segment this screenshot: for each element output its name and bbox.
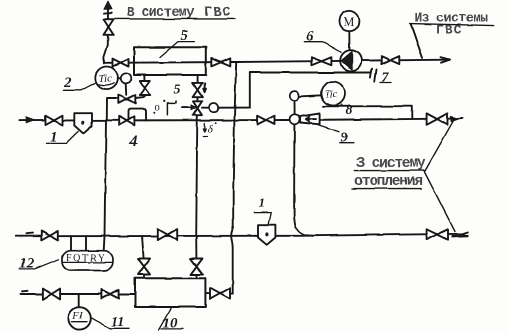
wire bottom cold-water line y=294 (21, 293, 136, 295)
leader label 10 (159, 308, 172, 330)
dirt dot strainer S2 (265, 232, 268, 236)
heat exchanger U10 (135, 278, 205, 307)
valve V7 heater5 right stub (193, 83, 203, 97)
wire delta drain vertical (196, 116, 197, 259)
3-way control valve V8 (193, 101, 202, 115)
arrow flow right at main line inlet (26, 117, 35, 123)
svg-text:δ: δ (208, 124, 214, 136)
wire GVS riser (104, 8, 108, 63)
valve V15 return line right (426, 229, 447, 239)
underline label 7 (381, 82, 392, 84)
valve V1 main inlet (46, 116, 63, 125)
node circle A on elevator branch (290, 91, 299, 100)
FI underline (72, 321, 88, 323)
underline label 11 (110, 327, 129, 329)
wire impulse line into 3-way valve (182, 107, 192, 109)
underline swoosh controller 2 (99, 83, 115, 85)
stem pump to motor (348, 31, 350, 50)
svg-text:Tic: Tic (99, 73, 113, 85)
underline heating line 2 (352, 188, 421, 190)
wire node to Tic8 (299, 95, 321, 96)
wire heater10 outlet elbow (206, 293, 233, 295)
wire return tee down to valve18 (142, 236, 144, 258)
underline to GVS system (115, 18, 235, 20)
leader label 1 return (254, 213, 271, 225)
underline heating line 1 (354, 170, 425, 172)
valve V14 return line middle (158, 229, 177, 240)
valve V18 heater10 top left (138, 259, 150, 275)
wire heater5 left bottom stub (143, 75, 145, 81)
svg-text:5: 5 (174, 83, 181, 98)
pump U6 circle (340, 50, 361, 71)
wire control valve U2 left loop (107, 98, 119, 121)
arrow up to GVS system (104, 1, 112, 9)
svg-text:4: 4 (129, 133, 138, 150)
leader label 11 (91, 318, 110, 329)
controller Tic circle 2 (95, 67, 118, 90)
leader dot label 8 (341, 104, 343, 106)
strainer S1 on main line (74, 113, 92, 134)
leader label 2 (63, 83, 95, 90)
valve V17 bottom line right (101, 290, 118, 299)
degree dot of o mark (163, 100, 165, 102)
arrow into 3-way valve (191, 105, 196, 110)
valve V20 heater10 outlet (210, 288, 230, 299)
dirt dot strainer S1 (81, 121, 84, 125)
wire Tic8 sensing loop to main line (323, 106, 412, 119)
flow meter FQTRY oval 12 (62, 251, 113, 271)
orifice break ticks 7 (370, 69, 376, 82)
arrow squiggle at return line right end (452, 234, 468, 237)
valve V12 main line to heating system (426, 113, 447, 124)
wire FI meter stub (78, 294, 80, 309)
leader label 5 (160, 42, 195, 57)
flange tick on riser (104, 12, 112, 15)
svg-text:отопления: отопления (354, 174, 422, 190)
down arrow beside valve V7 (203, 83, 206, 92)
leader label 9 (318, 125, 340, 132)
valve V19 heater10 top right (191, 259, 203, 275)
wire FQTRY stub 1 (70, 236, 72, 251)
valve V10 pump suction (311, 57, 331, 65)
valve V16 bottom line left (43, 289, 60, 300)
svg-text:o: o (155, 103, 160, 114)
arrow end of line from GVS system (441, 57, 450, 63)
chord line in FQTRY (62, 261, 113, 263)
wire valve19 to heater10 (196, 275, 198, 279)
delta degree dot (215, 122, 217, 124)
motor M circle (339, 11, 359, 31)
elevator 9 body (300, 114, 320, 125)
stub Tic2 to bulb (118, 77, 121, 79)
heat exchanger U5 (134, 47, 206, 75)
svg-text:8: 8 (346, 103, 353, 118)
svg-text:Tic: Tic (325, 89, 338, 100)
wire between node circles (294, 100, 296, 114)
flow indicator FI circle 11 (68, 307, 90, 329)
actuator bulb of 3-way valve V8 (209, 103, 218, 112)
diagonal leader from label iz sistemy to pipe (411, 24, 423, 58)
svg-text:FQTRY: FQTRY (66, 253, 106, 264)
wire impulse line up and right to orifice 7 (250, 73, 371, 108)
valve V9 number 4 on main line (119, 116, 134, 125)
wire return line y=236 (15, 234, 464, 236)
bracket mark (167, 101, 176, 115)
control valve V6 (118, 95, 135, 104)
wire 3-way to actuator bulb (202, 107, 210, 109)
leader label 1 (47, 132, 79, 144)
valve V13 return line left (41, 231, 58, 240)
svg-text:2: 2 (63, 75, 72, 91)
break tick at return line left end (27, 232, 33, 235)
arrow and dash at main line right end (451, 116, 459, 121)
wire actuator bulb to junction (219, 107, 250, 109)
svg-text:1: 1 (259, 195, 266, 210)
low dot of o mark (153, 112, 155, 114)
underline label 10 (161, 328, 183, 330)
leader label 6 (305, 42, 341, 53)
tick under delta (203, 135, 207, 137)
diagonal heating label to main line (425, 120, 453, 170)
node circle B elevator inlet (290, 114, 300, 124)
valve V21 main line before elevator (258, 116, 275, 125)
wire FQTRY stub 2 (85, 236, 87, 251)
valve V2 riser (104, 19, 114, 35)
delta flow mark (203, 123, 206, 132)
wire heater5 right bottom stub (197, 75, 199, 83)
wire control valve outlet elbow up (135, 95, 145, 98)
diagonal heating label to return line (424, 171, 455, 232)
pump impeller triangle (341, 51, 352, 70)
underline label 9 (340, 142, 354, 144)
stem bulb to valve V6 (125, 84, 128, 95)
arrow inside elevator (306, 117, 316, 122)
wire long vertical main-to-return (104, 121, 106, 251)
wire elevator down branch with curve into return (294, 124, 313, 236)
wire main supply line y=120 (19, 119, 457, 121)
actuator bulb of valve V6 (121, 73, 132, 84)
wire heater10 feed vertical from pump line (231, 62, 236, 294)
controller Tic circle 8 (321, 82, 345, 106)
underline label 12 (19, 259, 58, 269)
wire between valve and 3-way valve (196, 97, 198, 101)
svg-text:З систему: З систему (357, 156, 426, 172)
strainer S2 on return line (258, 225, 275, 245)
underline from GVS system (410, 24, 495, 26)
svg-text:FI: FI (72, 311, 83, 322)
wire bypass bridge over valve4 (129, 109, 147, 121)
valve V5 heater5 left stub (140, 81, 150, 95)
svg-text:M: M (343, 15, 354, 29)
valve V4 heater5 outlet (211, 58, 230, 66)
wire valve18 to heater10 top (143, 275, 145, 279)
valve V3 heater5 inlet (113, 59, 129, 67)
valve V11 pump discharge (381, 56, 399, 64)
wire pump suction line y=62 (104, 60, 450, 63)
